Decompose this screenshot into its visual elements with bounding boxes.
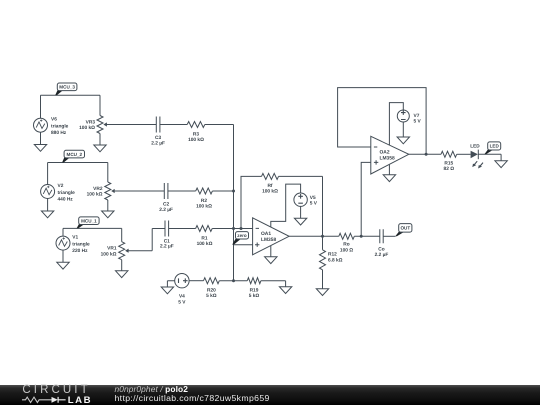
voltage source V7: [397, 110, 409, 122]
wire row1 top: [41, 94, 101, 96]
node MCU_1: [77, 224, 85, 229]
svg-text:5 kΩ: 5 kΩ: [206, 293, 217, 299]
svg-text:100 kΩ: 100 kΩ: [101, 251, 117, 257]
svg-text:R15: R15: [444, 160, 453, 166]
voltage source V1: [62, 228, 64, 262]
wire to bus: [205, 124, 234, 126]
svg-text:V7: V7: [414, 113, 420, 119]
svg-text:2.2 µF: 2.2 µF: [159, 207, 173, 213]
node OUT: [395, 232, 404, 237]
ground: [41, 211, 53, 218]
svg-text:100 kΩ: 100 kΩ: [262, 189, 278, 195]
ground: [94, 145, 106, 152]
node LED: [484, 149, 493, 154]
wire after LED: [478, 154, 501, 161]
svg-text:100 kΩ: 100 kΩ: [79, 125, 95, 131]
wire row2 top: [48, 162, 108, 164]
potentiometer VR1: [121, 228, 123, 270]
svg-text:LM358: LM358: [261, 237, 277, 243]
svg-text:VR1: VR1: [107, 246, 117, 252]
svg-text:MCU_3: MCU_3: [59, 85, 75, 90]
svg-text:5 V: 5 V: [310, 201, 318, 207]
svg-text:V1: V1: [72, 235, 78, 241]
svg-text:100 kΩ: 100 kΩ: [87, 192, 103, 198]
ground under V5: [300, 206, 302, 218]
ground: [116, 271, 128, 278]
resistor R19: [247, 278, 261, 284]
voltage source V5: [294, 193, 307, 206]
wire to bus: [212, 228, 233, 230]
svg-text:R2: R2: [201, 198, 207, 204]
svg-text:2.2 µF: 2.2 µF: [375, 252, 389, 258]
svg-text:LED: LED: [490, 144, 500, 149]
resistor R15: [441, 151, 457, 157]
wire OA2 feedback loop: [338, 88, 427, 155]
node zero: [232, 238, 241, 244]
capacitor C1: [165, 221, 169, 237]
capacitor C3: [156, 117, 160, 133]
svg-text:R1: R1: [201, 235, 207, 241]
resistor R1: [196, 226, 213, 232]
svg-text:LED: LED: [470, 144, 480, 149]
svg-text:2.2 µF: 2.2 µF: [160, 244, 174, 250]
resistor R2: [196, 188, 213, 194]
svg-text:Co: Co: [378, 247, 384, 253]
svg-text:triangle: triangle: [51, 123, 69, 129]
svg-text:2.2 µF: 2.2 µF: [151, 141, 165, 147]
svg-text:OA1: OA1: [261, 231, 271, 237]
OA1 V- pin + ground: [270, 246, 272, 257]
ground under V7: [402, 122, 404, 137]
svg-text:C1: C1: [164, 238, 170, 244]
svg-text:5 kΩ: 5 kΩ: [249, 293, 260, 299]
svg-text:440 Hz: 440 Hz: [58, 197, 74, 203]
svg-text:OA2: OA2: [380, 149, 390, 155]
svg-text:100 Ω: 100 Ω: [340, 247, 353, 253]
OA1 V+ pin wire: [271, 184, 301, 227]
op-amp OA2: [371, 136, 409, 174]
wire to bus: [212, 190, 233, 192]
feedback resistor Rf: [241, 176, 262, 228]
svg-text:MCU_1: MCU_1: [81, 218, 97, 223]
voltage source V6: [40, 95, 42, 144]
wire OA2 + input from output row: [361, 162, 371, 236]
ground: [102, 211, 114, 218]
svg-text:OUT: OUT: [400, 226, 410, 231]
OA2 output wire: [409, 153, 441, 155]
svg-text:V2: V2: [58, 183, 64, 189]
svg-text:R19: R19: [250, 287, 259, 293]
resistor R12: [322, 236, 324, 250]
footer bar: [0, 385, 540, 405]
ground: [495, 161, 507, 168]
wire + ground right of R19: [261, 281, 286, 287]
svg-text:100 kΩ: 100 kΩ: [188, 137, 204, 143]
node MCU_2: [62, 157, 70, 162]
potentiometer VR2: [107, 163, 109, 212]
svg-text:zero: zero: [237, 233, 247, 238]
svg-text:VR3: VR3: [86, 120, 96, 126]
resistor R20: [189, 280, 203, 282]
wire to OA1 inputs: [234, 229, 253, 245]
svg-text:Rf: Rf: [267, 183, 272, 189]
svg-text:C2: C2: [163, 202, 169, 208]
voltage source V2: [47, 163, 49, 212]
wire: [160, 124, 187, 126]
svg-text:6.8 kΩ: 6.8 kΩ: [328, 257, 343, 263]
wire: [168, 190, 196, 192]
svg-text:5 V: 5 V: [178, 299, 186, 305]
CircuitLab logo: [22, 384, 90, 396]
svg-text:100 kΩ: 100 kΩ: [196, 203, 212, 209]
svg-text:Ro: Ro: [343, 242, 349, 248]
potentiometer VR3: [99, 95, 101, 145]
svg-text:880 Hz: 880 Hz: [51, 130, 67, 136]
wire: [169, 228, 196, 230]
svg-text:V5: V5: [310, 195, 316, 201]
svg-text:R12: R12: [328, 251, 337, 257]
svg-text:LM358: LM358: [380, 155, 396, 161]
svg-text:5 V: 5 V: [414, 119, 422, 125]
svg-text:220 Hz: 220 Hz: [72, 248, 88, 254]
svg-text:VR2: VR2: [93, 186, 103, 192]
OA2 V- pin + ground: [388, 165, 390, 175]
resistor Ro: [339, 233, 355, 239]
ground: [34, 145, 46, 152]
capacitor Co: [380, 229, 383, 243]
voltage source V4: [167, 281, 174, 287]
svg-text:V4: V4: [179, 294, 185, 300]
svg-text:MCU_2: MCU_2: [67, 152, 83, 157]
svg-text:triangle: triangle: [58, 190, 76, 196]
op-amp OA1: [253, 218, 290, 255]
svg-text:R3: R3: [193, 131, 199, 137]
wire bus vertical: [233, 125, 235, 281]
svg-text:R20: R20: [207, 287, 216, 293]
ground: [57, 262, 69, 269]
svg-text:82 Ω: 82 Ω: [444, 166, 455, 172]
svg-text:triangle: triangle: [72, 241, 90, 247]
svg-text:100 kΩ: 100 kΩ: [197, 241, 213, 247]
resistor R3: [187, 122, 205, 128]
OA1 output wire: [289, 235, 339, 237]
capacitor C2: [164, 183, 168, 199]
node MCU_3: [55, 90, 63, 95]
wire up to C1: [152, 229, 165, 251]
OA2 V+ pin wire: [389, 103, 403, 146]
wire row3 top: [63, 227, 122, 229]
svg-text:C3: C3: [155, 135, 161, 141]
svg-text:V6: V6: [51, 117, 57, 123]
LED diode: [471, 151, 478, 158]
